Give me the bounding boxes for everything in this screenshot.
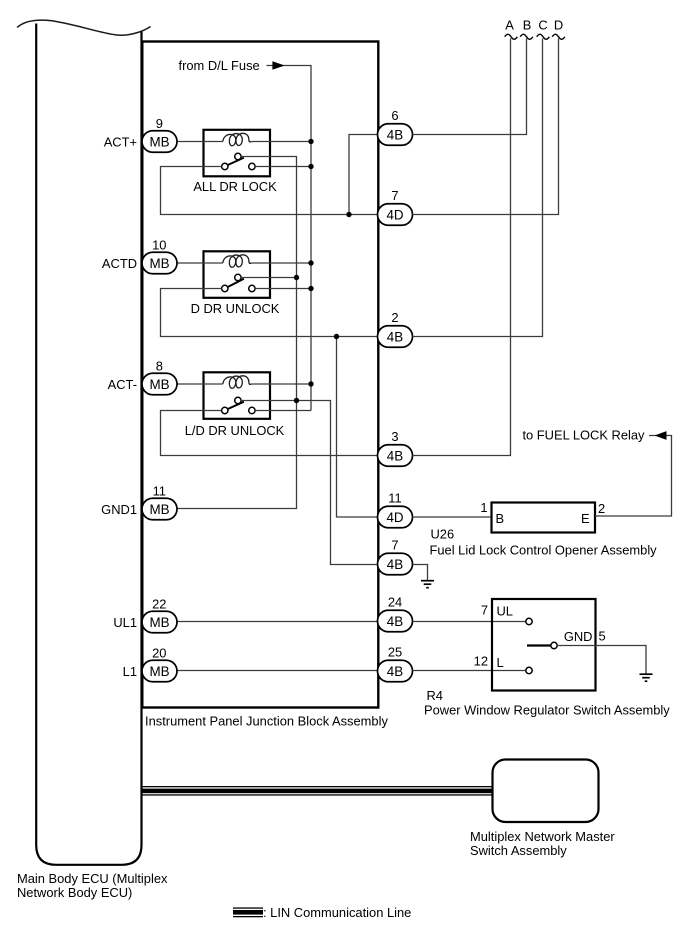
svg-text:7: 7 <box>391 188 398 203</box>
svg-text:MB: MB <box>149 377 169 392</box>
svg-text:4D: 4D <box>386 510 403 525</box>
junction on fuse feed at L/D DR UNLOCK coil <box>308 381 313 386</box>
svg-text:4B: 4B <box>387 557 403 572</box>
svg-text:MB: MB <box>149 502 169 517</box>
wire: 4B pin24 to switch UL terminal <box>413 621 526 623</box>
wire: R4 GND pin5 to ground <box>557 646 646 674</box>
svg-text:A: A <box>505 18 514 33</box>
wire: D DR UNLOCK pivot to ground net <box>241 277 296 279</box>
break symbol A <box>505 34 518 39</box>
svg-text:MB: MB <box>149 134 169 149</box>
svg-text:Multiplex Network Master: Multiplex Network Master <box>470 829 615 844</box>
wire: 4B pin2 to node C <box>413 39 543 337</box>
svg-text:L1: L1 <box>123 664 137 679</box>
svg-text:U26: U26 <box>431 527 455 542</box>
junction of 4D pin11 branch on pin2 wire <box>334 334 339 339</box>
connector 4B pin 2 <box>378 326 413 348</box>
svg-text:24: 24 <box>388 595 402 610</box>
wire: 4D pin11 to U26 pin1 <box>413 516 492 518</box>
connector MB pin 10 (ACTD) <box>142 252 177 274</box>
svg-text:Network Body ECU): Network Body ECU) <box>17 885 132 900</box>
wire: D DR UNLOCK contact to fuse feed <box>255 288 311 290</box>
connector MB pin 20 (L1) <box>142 660 177 682</box>
svg-text:10: 10 <box>152 238 166 253</box>
svg-text:4B: 4B <box>387 127 403 142</box>
connector 4B pin 3 <box>378 445 413 467</box>
wire: 4B pin7 to ground <box>413 565 428 581</box>
legend LIN line symbol <box>233 907 263 908</box>
junction on fuse feed at ALL DR LOCK contact <box>308 164 313 169</box>
wire: MB pin8 to L/D DR UNLOCK coil <box>177 383 223 385</box>
svg-text:Power Window Regulator Switch: Power Window Regulator Switch Assembly <box>424 703 670 718</box>
wire: UL1 to 4B pin24 <box>177 621 378 623</box>
switch of ALL DR LOCK relay <box>235 153 241 159</box>
svg-text:D DR UNLOCK: D DR UNLOCK <box>191 301 280 316</box>
svg-text:25: 25 <box>388 645 402 660</box>
wire: 4B pin2 branch down to 4D pin11 <box>337 337 378 518</box>
R4 L terminal circle <box>526 667 532 673</box>
wire: ALL DR LOCK common loop to 4D pin7 <box>161 167 378 215</box>
connector MB pin 11 (GND1) <box>142 498 177 520</box>
wire: L1 to 4B pin25 <box>177 670 378 672</box>
svg-text:Instrument Panel Junction Bloc: Instrument Panel Junction Block Assembly <box>145 714 388 729</box>
wire: D DR UNLOCK common loop to 4B pin2 <box>161 289 378 337</box>
svg-text:5: 5 <box>599 629 606 644</box>
svg-text:6: 6 <box>391 108 398 123</box>
Main Body ECU (Multiplex Network Body ECU) box <box>36 24 141 865</box>
junction on ground net at L/D DR UNLOCK pivot <box>294 398 299 403</box>
wire: 4B pin25 to switch L terminal <box>413 670 526 672</box>
break symbol D <box>552 34 565 39</box>
svg-text:7: 7 <box>391 538 398 553</box>
R4 GND terminal circle <box>551 642 557 648</box>
junction on fuse feed at D DR UNLOCK contact <box>308 286 313 291</box>
wire: ALL DR LOCK contact to fuse feed <box>255 166 311 168</box>
svg-text:to FUEL LOCK Relay: to FUEL LOCK Relay <box>522 428 645 443</box>
junction on fuse feed at ALL DR LOCK coil <box>308 139 313 144</box>
R4 switch blade <box>527 644 551 646</box>
LIN communication line band <box>142 786 493 787</box>
wire: L/D DR UNLOCK contact to fuse feed end <box>255 410 311 412</box>
junction on fuse feed at D DR UNLOCK coil <box>308 260 313 265</box>
coil of ALL DR LOCK relay <box>223 133 251 145</box>
svg-text:MB: MB <box>149 256 169 271</box>
svg-text:C: C <box>538 18 547 33</box>
svg-text:B: B <box>523 18 532 33</box>
connector 4B pin 6 <box>378 124 413 146</box>
svg-text:Main Body ECU (Multiplex: Main Body ECU (Multiplex <box>17 871 168 886</box>
svg-text:2: 2 <box>391 310 398 325</box>
connector MB pin 22 (UL1) <box>142 611 177 633</box>
svg-text:22: 22 <box>152 597 166 612</box>
svg-text:L: L <box>497 655 504 670</box>
svg-text:1: 1 <box>480 500 487 515</box>
coil of L/D DR UNLOCK relay <box>223 376 251 388</box>
wire: 4D pin7 to node D <box>413 39 559 215</box>
svg-text:UL: UL <box>497 604 513 619</box>
wire: D/L fuse feed line down junction column <box>284 66 311 411</box>
arrow to FUEL LOCK relay <box>655 431 667 440</box>
svg-text:: LIN Communication Line: : LIN Communication Line <box>263 905 411 920</box>
wire: L/D DR UNLOCK pivot to 4B pin7 ground <box>241 401 377 565</box>
svg-text:4B: 4B <box>387 448 403 463</box>
svg-text:12: 12 <box>474 654 488 669</box>
multiplex network master switch box <box>493 760 599 823</box>
junction of 4B pin6 elbow on pin7 wire <box>346 212 351 217</box>
connector 4B pin 7 (to ground) <box>378 553 413 575</box>
svg-text:L/D DR UNLOCK: L/D DR UNLOCK <box>185 423 285 438</box>
connector MB pin 9 (ACT+) <box>142 131 177 153</box>
wire: MB pin9 to ALL DR LOCK coil <box>177 141 223 143</box>
svg-text:MB: MB <box>149 664 169 679</box>
svg-text:11: 11 <box>388 491 401 506</box>
svg-text:7: 7 <box>481 603 488 618</box>
connector 4D pin 11 <box>378 506 413 528</box>
wire: 4B pin6 elbow to pin7 net <box>349 135 378 215</box>
wire: U26 pin2 to FUEL LOCK relay <box>595 436 672 517</box>
R4 UL terminal circle <box>526 618 532 624</box>
svg-text:9: 9 <box>156 116 163 131</box>
ground symbol at 4B pin7 <box>421 580 434 582</box>
svg-text:11: 11 <box>153 484 166 499</box>
relay ALL DR LOCK box <box>204 130 271 177</box>
wire: MB pin10 to D DR UNLOCK coil <box>177 262 223 264</box>
Instrument Panel Junction Block Assembly box <box>142 42 378 708</box>
svg-text:4B: 4B <box>387 329 403 344</box>
break symbol B <box>520 34 533 39</box>
switch of D DR UNLOCK relay <box>235 274 241 280</box>
svg-text:UL1: UL1 <box>113 615 137 630</box>
svg-text:Switch Assembly: Switch Assembly <box>470 843 567 858</box>
connector MB pin 8 (ACT-) <box>142 373 177 395</box>
svg-text:4D: 4D <box>386 207 403 222</box>
svg-text:ACTD: ACTD <box>102 256 137 271</box>
wire: D DR UNLOCK coil to fuse feed <box>251 262 311 264</box>
svg-text:B: B <box>496 511 505 526</box>
svg-text:E: E <box>581 511 590 526</box>
svg-text:GND: GND <box>564 629 593 644</box>
arrow from D/L Fuse <box>267 65 285 67</box>
wire: ground net vertical (ALL pivot to GND1) <box>177 157 297 509</box>
svg-text:ACT+: ACT+ <box>104 134 137 149</box>
junction on ground net at D DR UNLOCK pivot <box>294 275 299 280</box>
svg-text:R4: R4 <box>427 688 443 703</box>
svg-text:4B: 4B <box>387 614 403 629</box>
svg-text:8: 8 <box>156 359 163 374</box>
svg-text:2: 2 <box>598 501 605 516</box>
wire: L/D DR UNLOCK coil to fuse feed <box>251 383 311 385</box>
coil of D DR UNLOCK relay <box>223 255 251 267</box>
power window regulator switch R4 box <box>492 599 596 691</box>
svg-text:20: 20 <box>152 646 166 661</box>
connector 4B pin 24 <box>378 610 413 632</box>
ground symbol at R4 pin5 <box>640 673 653 675</box>
svg-text:Fuel Lid Lock Control Opener A: Fuel Lid Lock Control Opener Assembly <box>430 543 658 558</box>
svg-text:4B: 4B <box>387 664 403 679</box>
connector 4D pin 7 <box>378 204 413 226</box>
fuel lid opener U26 box <box>492 503 596 533</box>
wire: ALL DR LOCK coil to fuse feed <box>251 141 311 143</box>
wire: L/D DR UNLOCK common loop to 4B pin3 <box>161 411 378 456</box>
wire: 4B pin3 to node A <box>413 39 511 456</box>
svg-text:D: D <box>554 18 563 33</box>
svg-text:MB: MB <box>149 615 169 630</box>
svg-text:ACT-: ACT- <box>108 377 137 392</box>
svg-text:ALL DR LOCK: ALL DR LOCK <box>193 179 277 194</box>
wire: 4B pin6 to node B <box>413 39 527 135</box>
relay D DR UNLOCK box <box>204 251 271 297</box>
svg-text:GND1: GND1 <box>101 502 137 517</box>
relay L/D DR UNLOCK box <box>204 372 271 419</box>
break symbol C <box>537 34 550 39</box>
connector 4B pin 25 <box>378 660 413 682</box>
svg-text:from D/L Fuse: from D/L Fuse <box>179 58 260 73</box>
torn-edge wavy top of ECU box <box>17 20 151 35</box>
svg-text:3: 3 <box>391 429 398 444</box>
switch of L/D DR UNLOCK relay <box>235 397 241 403</box>
